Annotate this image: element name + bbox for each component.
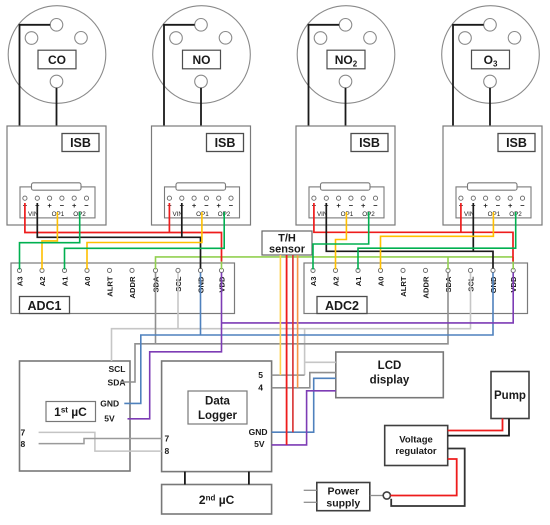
svg-text:−: −: [204, 201, 209, 210]
wire voltage regulator to connector node (black): [391, 449, 465, 507]
svg-text:+: +: [336, 201, 341, 210]
svg-text:A3: A3: [309, 277, 318, 287]
pump box: [491, 372, 529, 419]
wire O3 sensor top pin to ISB4 (black): [453, 25, 489, 146]
ISB1 isb board: [7, 126, 106, 225]
svg-text:−: −: [349, 201, 354, 210]
wire O3 sensor bottom pin to ISB4 connector (black): [489, 88, 491, 184]
wire NO sensor bottom pin to ISB2 connector (black): [200, 88, 202, 184]
svg-text:+: +: [47, 201, 52, 210]
svg-text:8: 8: [165, 446, 170, 456]
wire NO sensor top pin to ISB2 (black): [164, 25, 200, 146]
svg-text:Voltage: Voltage: [399, 435, 433, 446]
wire pump to voltage regulator (black): [448, 419, 509, 436]
svg-text:SCL: SCL: [109, 364, 126, 374]
svg-text:supply: supply: [326, 498, 360, 510]
wire 5V purple branch: LCD / data logger 5V: [272, 391, 336, 445]
ISB1 connector block: [20, 183, 95, 218]
svg-text:A0: A0: [83, 277, 92, 287]
wire net VIN+ red bus left: ISB1/ISB2 to ADC1 VDD: [25, 203, 222, 262]
power supply input stub top: [304, 489, 317, 491]
wire ISB1 OP2 green to ADC1 A3: [20, 212, 80, 270]
node: barrel connector circle: [383, 492, 390, 499]
ADC1 analog-to-digital converter: [11, 263, 235, 314]
LCD display box: [336, 352, 444, 398]
svg-text:Pump: Pump: [494, 390, 526, 402]
svg-text:Power: Power: [328, 486, 360, 498]
svg-text:Logger: Logger: [198, 410, 237, 422]
svg-text:5: 5: [258, 370, 263, 380]
svg-text:GND: GND: [249, 427, 268, 437]
ISB2 connector block: [165, 183, 240, 218]
wire ISB3 OP1 yellow to ADC2 A2: [336, 212, 347, 270]
wire GND net blue: ADC1 GND / ADC2 GND / U1 GND bus: [124, 273, 493, 404]
microcontroller U2 (2nd uC) box: [162, 485, 272, 515]
svg-text:+: +: [483, 201, 488, 210]
svg-text:A2: A2: [331, 277, 340, 287]
ISB4 isb board: [443, 126, 542, 225]
ISB2 isb board: [152, 126, 251, 225]
ISB3 isb board: [296, 126, 395, 225]
wire ISB4 OP2 green to ADC2 A1: [358, 212, 516, 270]
svg-text:ADC1: ADC1: [27, 299, 61, 313]
sensor S1 CO gas sensor: [8, 6, 106, 104]
svg-text:ISB: ISB: [215, 136, 236, 150]
svg-text:LCD: LCD: [378, 360, 402, 372]
svg-text:+: +: [217, 201, 222, 210]
wire ISB1 OP1 yellow to ADC1 A2: [42, 212, 57, 270]
svg-text:A3: A3: [15, 277, 24, 287]
wire SCL net light gray: ADC1 SCL / ADC2 SCL / U1 SCL bus: [112, 273, 471, 376]
svg-text:−: −: [520, 201, 525, 210]
ADC2 analog-to-digital converter: [304, 263, 528, 314]
voltage regulator box: [385, 426, 448, 466]
svg-text:Data: Data: [205, 396, 231, 408]
svg-text:2nd µC: 2nd µC: [199, 493, 235, 507]
svg-text:+: +: [361, 201, 366, 210]
svg-text:8: 8: [21, 439, 26, 449]
svg-text:NO: NO: [193, 53, 211, 67]
svg-text:sensor: sensor: [269, 244, 306, 256]
svg-text:−: −: [84, 201, 89, 210]
svg-text:7: 7: [165, 434, 170, 444]
wire data logger pin4 line to LCD SDA (gray): [272, 373, 336, 388]
wire net VIN- black bus left: ISB1/ISB2 to ADC1 GND: [37, 203, 200, 269]
svg-text:A1: A1: [354, 276, 363, 286]
svg-text:ALRT: ALRT: [105, 276, 114, 297]
svg-text:A2: A2: [38, 277, 47, 287]
svg-text:+: +: [508, 201, 513, 210]
power supply box: [317, 483, 370, 511]
svg-text:ADC2: ADC2: [325, 299, 359, 313]
wire NO2 sensor bottom pin to ISB3 connector (black): [345, 88, 347, 184]
svg-text:CO: CO: [48, 53, 66, 67]
wire data logger pin5 line (gray): [272, 374, 305, 376]
ISB4 connector block: [456, 183, 531, 218]
svg-text:GND: GND: [100, 398, 119, 408]
wire T/H sensor red to data logger 5V: [286, 255, 288, 445]
svg-text:1st µC: 1st µC: [54, 405, 87, 419]
wire GND blue branch: LCD / data logger GND: [272, 378, 336, 432]
svg-text:4: 4: [258, 383, 263, 393]
wire ISB2 OP2 green to ADC1 A1: [65, 212, 225, 270]
wire U1 pin8 to data logger pin7 (gray): [39, 439, 162, 444]
sensor S3 NO2 gas sensor: [297, 6, 395, 104]
svg-text:ISB: ISB: [70, 136, 91, 150]
data logger box: [162, 361, 272, 472]
svg-text:ALRT: ALRT: [399, 276, 408, 297]
power supply input stub bottom: [304, 501, 317, 503]
microcontroller U1 (1st uC) box: [20, 361, 131, 471]
svg-text:5V: 5V: [254, 439, 265, 449]
svg-text:ISB: ISB: [506, 136, 527, 150]
wire SDA net dark gray: ADC1 SDA / ADC2 SDA / U1 SDA bus: [120, 273, 448, 383]
svg-text:−: −: [60, 201, 65, 210]
wire ISB2 OP1 yellow to ADC1 A0: [87, 212, 202, 270]
svg-text:A0: A0: [376, 277, 385, 287]
svg-text:−: −: [496, 201, 501, 210]
T/H sensor box: [262, 231, 312, 256]
wire T/H sensor red2 to data logger GND: [292, 255, 294, 432]
svg-text:ADDR: ADDR: [128, 276, 137, 298]
svg-text:+: +: [72, 201, 77, 210]
svg-text:−: −: [373, 201, 378, 210]
svg-text:7: 7: [21, 427, 26, 437]
wire power supply to connector node (gray): [370, 495, 383, 497]
wire T/H sensor orange to data logger pin4: [297, 255, 299, 388]
wire data logger to 2nd uC right (black): [248, 472, 250, 485]
wire CO sensor bottom pin to ISB1 connector (black): [56, 88, 58, 184]
wire connector node to voltage regulator (red): [390, 459, 456, 496]
svg-text:+: +: [192, 201, 197, 210]
wire ISB4 OP1 yellow to ADC2 A0: [381, 212, 494, 270]
wire net VIN+ red bus right: ISB3/ISB4 to ADC2 VDD: [314, 203, 513, 262]
svg-text:−: −: [229, 201, 234, 210]
svg-text:5V: 5V: [104, 414, 115, 424]
wire U1 pin7 to data logger pin8 (light gray): [39, 432, 162, 451]
ISB3 connector block: [309, 183, 384, 218]
wire CO sensor top pin to ISB1 (black): [20, 25, 56, 146]
svg-text:regulator: regulator: [395, 446, 436, 457]
wire ISB3 OP2 green to ADC2 A3: [313, 212, 369, 270]
wire T/H sensor yellow to data logger pin5: [279, 255, 281, 375]
wire SDA bus light-green: ADC1 SDA to ADC2 SDA / VDD caps: [156, 257, 514, 270]
wire NO2 sensor top pin to ISB3 (black): [309, 25, 345, 146]
svg-text:ADDR: ADDR: [421, 276, 430, 298]
svg-text:display: display: [370, 375, 410, 387]
wire net VIN- black bus right: ISB3/ISB4 to ADC2 GND: [326, 203, 493, 269]
sensor S2 NO gas sensor: [153, 6, 251, 104]
wire pump to voltage regulator (red): [448, 419, 503, 431]
wire 5V net purple: ADC1 VDD / ADC2 VDD / U1 5V bus: [128, 273, 514, 419]
svg-text:A1: A1: [60, 276, 69, 286]
wire data logger to 2nd uC left (black): [184, 472, 186, 485]
svg-text:ISB: ISB: [359, 136, 380, 150]
sensor S4 O3 gas sensor: [442, 6, 540, 104]
